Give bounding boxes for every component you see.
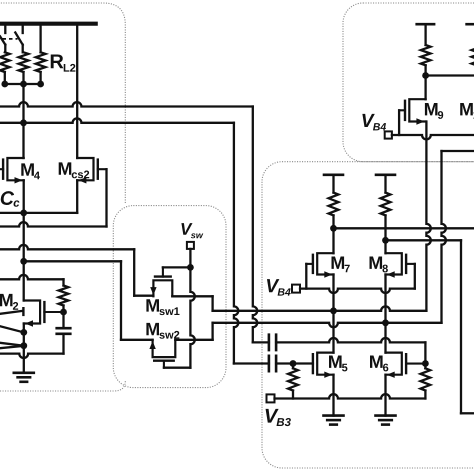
node: Vsw gate node	[187, 264, 194, 271]
node: M9 drain	[422, 72, 429, 79]
transistor M6	[370, 353, 425, 378]
transistor M4	[0, 158, 40, 184]
dashed block boundary: switch block (middle, V_sw)	[113, 206, 226, 388]
wire: feed line to Msw2 source	[24, 260, 121, 262]
wire: Msw2 gate run	[164, 367, 190, 369]
node: resistor1 bottom	[1, 81, 8, 88]
wire: M9 gate down to VB4	[398, 110, 400, 135]
wire: Msw1 net jog down	[211, 296, 213, 311]
resistor (load branch 1)	[0, 52, 10, 72]
node: M5 gate node	[290, 360, 297, 367]
wire: M6 drain up to net N	[384, 323, 386, 353]
switch S1 lever	[0, 36, 5, 44]
wire: resistor 2 to rail	[22, 72, 24, 84]
wire: M7 drain line out right	[334, 227, 474, 229]
resistor (M8 drain load)	[381, 193, 391, 216]
wire: Vsw to Msw1 gate	[163, 266, 191, 268]
transistor M8	[370, 253, 415, 278]
dashed block boundary: bias block (top right)	[343, 3, 474, 162]
wire: resistor rail down to M4 drain	[22, 84, 24, 158]
wire: feed line to Msw1 source	[0, 245, 134, 249]
wire: M8 source down to net N	[384, 275, 386, 323]
wire: Msw2 drain out	[175, 339, 212, 341]
wire: common source line (C_c node)	[0, 212, 77, 214]
wire: M7 gate down to VB4	[305, 264, 307, 289]
wire: line to M2 gate resistor	[0, 275, 64, 279]
node: switch node a	[20, 329, 27, 336]
wire: bus stub to switch S1	[4, 26, 6, 34]
wire: line A down to cap C1	[253, 107, 257, 343]
transistor M7	[306, 253, 349, 278]
ground (M5)	[324, 416, 344, 425]
node: resistor2 bottom	[20, 81, 27, 88]
wire: M8 gate down to VB4	[414, 264, 416, 289]
wire: Msw2 feed corner down	[120, 261, 122, 340]
node: switch node b	[20, 342, 27, 349]
dashed gang link between S1 and S2	[3, 38, 18, 40]
wire: M9 drain line right	[426, 74, 474, 76]
wire: down to ground	[23, 346, 25, 373]
wire: bus stub to switch S2	[22, 26, 24, 34]
wire: M8 drain line down right edge	[460, 240, 462, 413]
resistor (load branch 2)	[19, 52, 29, 72]
wire: bus to resistor RL2	[39, 26, 41, 53]
transistor M_sw1	[146, 267, 179, 315]
wire: cap C2 to M5 gate	[276, 362, 313, 364]
switch S3 lever (to M2 drain)	[0, 311, 22, 314]
wire: switch node link	[23, 332, 25, 345]
switch S2 lever	[15, 33, 22, 45]
transistor M5	[313, 353, 348, 378]
wire: Msw1 feed to source	[134, 295, 153, 297]
wire: VB3 bias line	[275, 394, 426, 398]
wire: M9 source long vertical	[426, 122, 430, 311]
wire: resistor bottom rail	[5, 83, 41, 85]
node: line B taps M4 drain	[20, 119, 27, 126]
transistor M_cs2	[59, 158, 107, 184]
wire: M4/Mcs2 tail down	[23, 213, 25, 261]
wire: cap C1 lead	[253, 341, 269, 343]
node: net N at M8 source	[382, 319, 389, 326]
node: M6 gate node	[422, 360, 429, 367]
node: resistorRL2 bottom	[37, 81, 44, 88]
node: M2 gate / resistor / cap	[60, 309, 67, 316]
wire: line B down to cap C2	[234, 123, 238, 364]
wire: M6 source down to ground	[384, 375, 386, 416]
wire: M4 source down	[23, 180, 25, 213]
wire: resistor bottom lead	[62, 306, 64, 313]
wire: M2 source down to switch node	[23, 324, 25, 333]
wire: C1 corner down to M6 gate	[424, 342, 426, 363]
wire: M8 drain line out right	[386, 239, 462, 241]
resistor (M5 gate bias)	[288, 364, 298, 399]
dashed block boundary: input stage (right)	[262, 162, 474, 468]
switch S5 lever	[0, 343, 24, 346]
wire: switch S1 to resistor	[4, 45, 6, 53]
transistor M9	[399, 99, 443, 125]
wire: Vsw terminal down	[189, 249, 191, 268]
label V_B4 (bias)	[362, 114, 386, 130]
wire: Msw2 net jog up	[211, 323, 213, 340]
wire: switch S2 to resistor	[22, 45, 24, 53]
wire: VB4 bias line	[300, 289, 415, 293]
wire: Mcs2 gate down	[105, 169, 107, 226]
node: M4 source / C_c	[20, 210, 27, 217]
wire: bus down to Mcs2 drain	[76, 26, 78, 159]
resistor R_L2	[36, 52, 46, 72]
resistor (M7 drain load)	[329, 193, 339, 216]
transistor M_sw2	[146, 323, 179, 368]
ground (M6)	[376, 416, 396, 425]
resistor (R10, cut)	[472, 45, 474, 65]
supply stub (R9)	[417, 24, 434, 45]
supply stub (R8)	[376, 175, 395, 193]
terminal V_B4 (bias)	[385, 131, 392, 138]
wire: resistor top lead	[62, 279, 64, 285]
label R_L2	[51, 54, 76, 71]
dashed block boundary: output stage (left)	[0, 3, 125, 391]
wire: M5 source down to ground	[332, 375, 334, 416]
transistor M2	[0, 294, 63, 327]
wire: resistor 1 to rail	[4, 72, 6, 84]
resistor (M9 drain load)	[421, 45, 431, 65]
terminal V_B3	[267, 394, 275, 402]
supply stub (R7)	[324, 175, 343, 193]
wire: cap C1 to M6 gate corner	[276, 338, 425, 342]
wire: net P (Msw1/M7/M9 sources)	[213, 306, 427, 310]
label V_B4 (input stage)	[267, 279, 291, 295]
terminal V_B4 (input stage)	[292, 285, 300, 293]
wire: Mcs2 gate line to left	[0, 222, 107, 226]
wire: VB4 line right	[392, 135, 474, 139]
node: M7 drain	[330, 225, 337, 232]
wire: M10 source line	[442, 150, 474, 152]
label C_c	[1, 191, 20, 207]
resistor (M2 gate bias)	[59, 286, 69, 306]
node: tail tap for Msw2 feed	[20, 258, 27, 265]
capacitor C1 (to M6 gate)	[269, 335, 276, 350]
wire: Msw2 feed to source	[121, 339, 153, 341]
label V_B3	[266, 409, 291, 426]
wire: M2 drain feed from tail	[23, 261, 25, 300]
wire: net N (Msw2/M8/M6)	[213, 323, 442, 327]
wire: cap return line	[0, 354, 64, 358]
wire: Msw1 feed corner down	[133, 249, 135, 295]
wire: resistor to M7 drain node	[332, 215, 334, 228]
wire: Msw1 drain out	[172, 295, 212, 297]
wire: M7 source down to net P	[332, 275, 334, 311]
wire: M8 drain vertical	[384, 240, 386, 253]
wire: resistor to M9 drain node	[424, 65, 426, 75]
resistor (M6 gate bias)	[421, 364, 431, 399]
wire: M9 drain vertical	[424, 76, 426, 100]
wire: M5 drain up to net P	[332, 311, 334, 353]
node: M8 drain	[382, 237, 389, 244]
wire: Vsw vertical to Msw2 gate	[190, 267, 194, 367]
wire: output line A (to cap C1 net)	[0, 102, 253, 106]
wire: M10 source long vertical	[442, 151, 446, 323]
ground (output stage)	[14, 373, 34, 382]
power bus (thick)	[0, 22, 96, 26]
label M10 (cut)	[460, 103, 474, 119]
wire: output line B (to cap C2 net)	[0, 118, 234, 122]
wire: Mcs2 source down	[76, 180, 78, 213]
wire: M8 drain line exits right	[461, 412, 474, 414]
wire: switch S5 line	[0, 346, 24, 348]
wire: cap C2 lead	[234, 362, 269, 364]
wire: resistor RL2 to rail	[39, 72, 41, 84]
capacitor C2 (to M5 gate)	[269, 356, 276, 371]
capacitor (M2 gate)	[57, 312, 71, 354]
wire: M7 drain vertical	[332, 228, 334, 253]
wire: resistor to M8 drain node	[384, 215, 386, 240]
supply stub (R10, cut)	[467, 23, 474, 26]
terminal V_sw	[187, 242, 194, 249]
switch S3 contact tick	[22, 308, 24, 315]
node: net P at M7 source	[330, 307, 337, 314]
label V_sw	[181, 223, 203, 238]
switch S4 lever	[0, 326, 24, 332]
